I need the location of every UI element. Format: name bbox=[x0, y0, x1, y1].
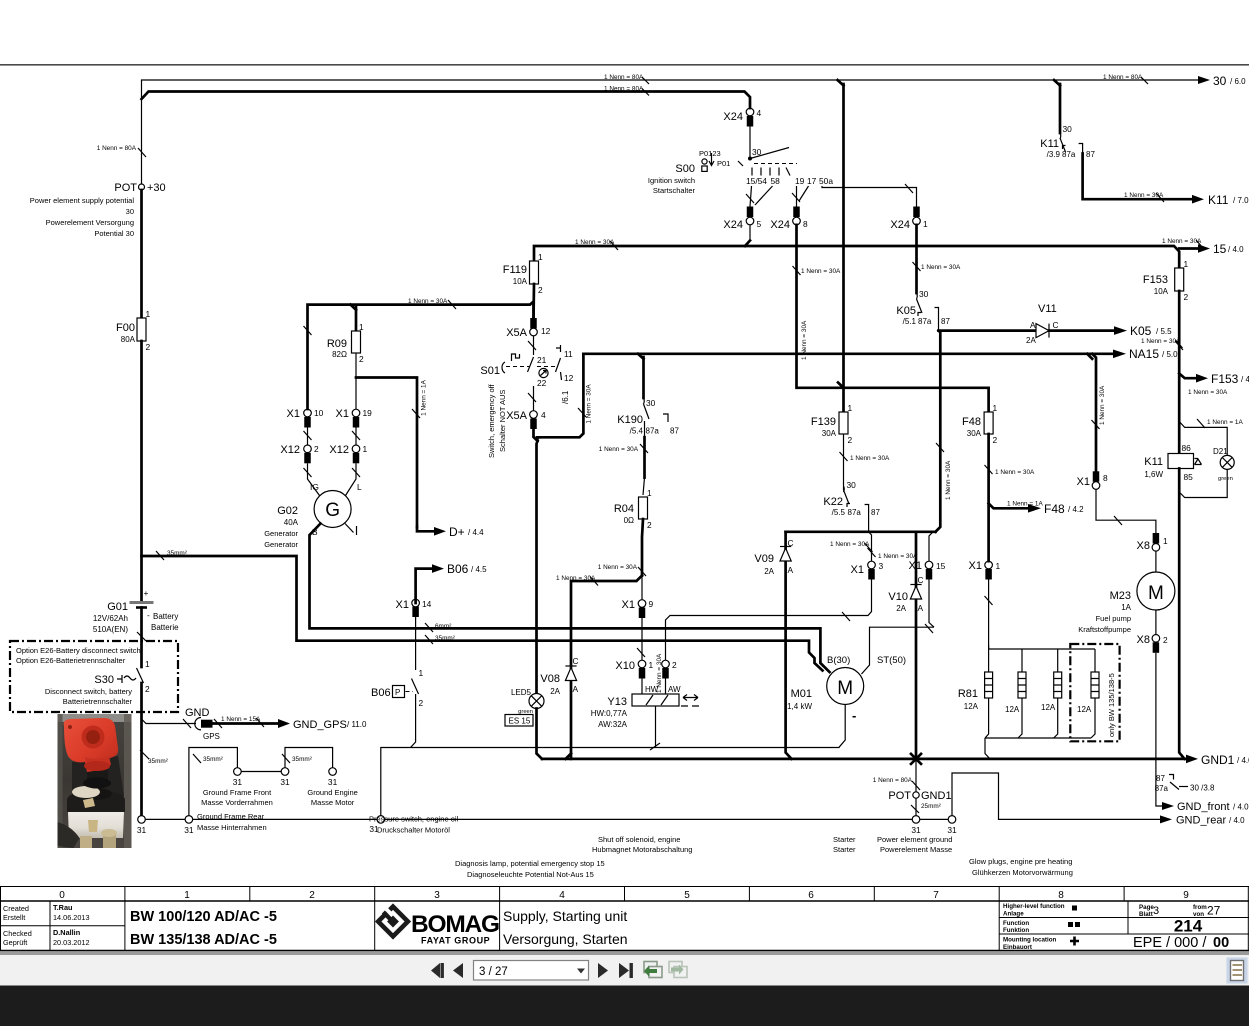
wire X1:3 to X10:2 run bbox=[666, 580, 872, 661]
svg-text:1 Nenn = 80A: 1 Nenn = 80A bbox=[873, 777, 913, 784]
wire starter node rail bbox=[786, 530, 936, 533]
junction marks GND1 bus bbox=[566, 754, 572, 759]
svg-text:5: 5 bbox=[684, 890, 690, 901]
svg-text:15: 15 bbox=[936, 561, 946, 571]
svg-text:87a: 87a bbox=[1062, 150, 1076, 159]
node 31 frame front b bbox=[281, 768, 289, 776]
wire X5A:4 junction bbox=[534, 429, 538, 441]
node K05 / 5.5 arrow bbox=[1049, 329, 1114, 332]
svg-text:1: 1 bbox=[359, 322, 364, 332]
svg-text:1A: 1A bbox=[1121, 603, 1131, 612]
svg-text:Higher-level function: Higher-level function bbox=[1003, 903, 1065, 910]
svg-text:Kraftstoffpumpe: Kraftstoffpumpe bbox=[1078, 625, 1131, 634]
node GND_front / 4.0 arrow bbox=[1162, 802, 1174, 810]
svg-text:1 Nenn = 80A: 1 Nenn = 80A bbox=[1103, 74, 1143, 81]
svg-text:Masse Vorderrahmen: Masse Vorderrahmen bbox=[201, 798, 273, 807]
svg-text:X10: X10 bbox=[615, 660, 635, 672]
svg-text:1 Nenn = 30A: 1 Nenn = 30A bbox=[995, 469, 1035, 476]
svg-text:Disconnect switch, battery: Disconnect switch, battery bbox=[45, 687, 132, 696]
svg-text:GND_front: GND_front bbox=[1177, 801, 1230, 813]
svg-text:10A: 10A bbox=[513, 277, 528, 286]
resistor R04 bbox=[639, 497, 648, 519]
svg-text:K190: K190 bbox=[617, 414, 643, 426]
relay contact K190 bbox=[617, 398, 679, 436]
wire R09 to X1:19 bbox=[355, 353, 357, 409]
node K11 / 7.0 arrow bbox=[1083, 154, 1192, 200]
svg-text:K05: K05 bbox=[896, 305, 916, 317]
svg-text:1: 1 bbox=[145, 659, 150, 669]
svg-text:87: 87 bbox=[1086, 150, 1095, 159]
svg-text:2A: 2A bbox=[764, 567, 774, 576]
pin X1:10 bbox=[304, 409, 312, 417]
svg-text:Y13: Y13 bbox=[607, 696, 627, 708]
switch S30 disconnect bbox=[45, 659, 150, 706]
svg-text:30: 30 bbox=[919, 289, 929, 299]
svg-text:31: 31 bbox=[911, 825, 921, 835]
svg-text:GND1: GND1 bbox=[921, 790, 952, 802]
svg-text:Fuel pump: Fuel pump bbox=[1096, 614, 1131, 623]
svg-text:50a: 50a bbox=[819, 176, 833, 186]
pin X1:19 bbox=[352, 409, 360, 417]
svg-text:82Ω: 82Ω bbox=[332, 350, 347, 359]
diode V09 bbox=[754, 538, 793, 576]
wire R04 to X1:9 bbox=[642, 519, 643, 576]
svg-text:F48: F48 bbox=[1044, 502, 1065, 516]
svg-text:POT: POT bbox=[888, 790, 911, 802]
wire GND1 bus bbox=[542, 758, 1186, 761]
node 31 left bbox=[138, 816, 146, 824]
svg-text:86: 86 bbox=[1182, 443, 1192, 453]
svg-text:31: 31 bbox=[184, 825, 194, 835]
wire X1:14 to B06 bbox=[415, 617, 417, 670]
svg-text:80A: 80A bbox=[121, 335, 136, 344]
svg-text:2: 2 bbox=[1184, 292, 1189, 302]
svg-text:M23: M23 bbox=[1110, 590, 1131, 602]
node 15 / 4.0 arrow bbox=[1179, 247, 1198, 250]
svg-text:-: - bbox=[147, 610, 150, 620]
node F48 / 4.2 arrow bbox=[989, 504, 1028, 509]
wire X1:19 to X12:1 bbox=[355, 428, 357, 446]
svg-text:2A: 2A bbox=[550, 687, 560, 696]
wire K05 87 down run bbox=[936, 331, 941, 532]
svg-text:30: 30 bbox=[1063, 124, 1073, 134]
svg-text:Hubmagnet Motorabschaltung: Hubmagnet Motorabschaltung bbox=[592, 845, 692, 854]
pin X1:15 bbox=[925, 561, 933, 569]
resistor R81 glow plug 3 bbox=[1041, 672, 1062, 712]
wire K22 87 drop bbox=[868, 511, 870, 532]
svg-text:Ground Frame Rear: Ground Frame Rear bbox=[197, 812, 265, 821]
svg-text:X5A: X5A bbox=[506, 327, 527, 339]
svg-text:Startschalter: Startschalter bbox=[653, 186, 696, 195]
wire D+ branch bbox=[356, 378, 417, 528]
wire GND_GPS arrow bbox=[213, 722, 279, 725]
node 31 rear ground bbox=[948, 816, 956, 824]
svg-text:IG: IG bbox=[310, 482, 319, 492]
pin X8:2 bbox=[1155, 610, 1157, 635]
wire S00 19 to X24:8 bbox=[796, 186, 798, 207]
svg-text:S00: S00 bbox=[675, 163, 695, 175]
photo white body bbox=[68, 812, 124, 838]
svg-text:Masse Hinterrahmen: Masse Hinterrahmen bbox=[197, 823, 267, 832]
wire F153 down bbox=[1178, 291, 1181, 454]
wire X1:9 to X10:1 bbox=[641, 618, 643, 660]
wire X12:1 to G02 L bbox=[346, 463, 357, 495]
svg-text:2: 2 bbox=[647, 520, 652, 530]
svg-text:A: A bbox=[573, 684, 579, 694]
generator G02 bbox=[314, 491, 351, 528]
svg-text:/3.9: /3.9 bbox=[1047, 150, 1061, 159]
svg-text:K11: K11 bbox=[1040, 138, 1059, 150]
svg-text:30: 30 bbox=[847, 480, 857, 490]
svg-text:Glühkerzen Motorvorwärmung: Glühkerzen Motorvorwärmung bbox=[972, 868, 1073, 877]
svg-text:21: 21 bbox=[537, 355, 547, 365]
node D+ / 4.4 arrow bbox=[417, 527, 434, 531]
svg-text:LED5: LED5 bbox=[511, 688, 532, 697]
wire X24:8 to F139 rail bbox=[797, 225, 989, 412]
svg-text:/6.1: /6.1 bbox=[561, 390, 570, 404]
svg-text:/5.1: /5.1 bbox=[903, 317, 917, 326]
svg-text:1 Nenn = 80A: 1 Nenn = 80A bbox=[97, 145, 137, 152]
svg-text:87: 87 bbox=[670, 427, 679, 436]
svg-text:F139: F139 bbox=[811, 416, 836, 428]
svg-text:P: P bbox=[395, 688, 400, 697]
BOMAG logo bbox=[376, 905, 499, 946]
pin X1:1 bbox=[985, 561, 993, 569]
pin X24:5 bbox=[747, 207, 754, 218]
svg-text:/ 5.5: / 5.5 bbox=[1156, 327, 1172, 336]
svg-text:V09: V09 bbox=[754, 553, 774, 565]
svg-text:1 Nenn = 30A: 1 Nenn = 30A bbox=[1099, 385, 1106, 425]
svg-text:F119: F119 bbox=[503, 264, 527, 276]
svg-text:1 Nenn = 1A: 1 Nenn = 1A bbox=[421, 379, 428, 415]
svg-text:4: 4 bbox=[559, 890, 565, 901]
wire LED5 to GND1 bus bbox=[537, 709, 543, 759]
wire G02 B output bbox=[310, 524, 830, 673]
svg-text:1 Nenn = 80A: 1 Nenn = 80A bbox=[604, 86, 644, 93]
svg-text:00: 00 bbox=[1213, 935, 1229, 951]
svg-text:FAYAT GROUP: FAYAT GROUP bbox=[421, 936, 490, 946]
ignition switch S00 bbox=[648, 147, 833, 195]
svg-text:9: 9 bbox=[1183, 890, 1189, 901]
column ruler strip bbox=[0, 887, 1249, 902]
svg-text:8: 8 bbox=[1058, 890, 1064, 901]
svg-text:12A: 12A bbox=[1041, 703, 1056, 712]
svg-text:87a: 87a bbox=[918, 317, 932, 326]
wire D21 branch bbox=[1179, 422, 1227, 456]
svg-text:10: 10 bbox=[314, 408, 324, 418]
svg-text:/5.4: /5.4 bbox=[630, 427, 644, 436]
svg-text:19: 19 bbox=[795, 176, 805, 186]
svg-text:M: M bbox=[1148, 583, 1164, 604]
svg-text:/ 7.0: / 7.0 bbox=[1233, 196, 1249, 205]
svg-text:35mm²: 35mm² bbox=[292, 756, 312, 763]
svg-text:Anlage: Anlage bbox=[1003, 911, 1024, 918]
svg-text:87a: 87a bbox=[1155, 784, 1169, 793]
svg-text:2: 2 bbox=[314, 444, 319, 454]
svg-text:A: A bbox=[918, 603, 924, 613]
svg-text:BOMAG: BOMAG bbox=[411, 911, 499, 938]
relay contact K05 bbox=[896, 293, 950, 331]
svg-text:Function: Function bbox=[1003, 920, 1029, 927]
svg-text:X12: X12 bbox=[329, 444, 349, 456]
pin X24:8 bbox=[793, 207, 800, 218]
wire S00 17 merge bbox=[799, 186, 809, 201]
svg-text:214: 214 bbox=[1174, 917, 1203, 936]
fuse F48 bbox=[984, 412, 993, 434]
svg-text:C: C bbox=[918, 575, 924, 585]
svg-text:Batterie: Batterie bbox=[151, 623, 179, 632]
svg-text:GND_rear: GND_rear bbox=[1176, 815, 1226, 827]
svg-text:+30: +30 bbox=[147, 182, 166, 194]
svg-text:2: 2 bbox=[359, 354, 364, 364]
svg-text:X1: X1 bbox=[622, 599, 635, 611]
svg-text:AW:32A: AW:32A bbox=[598, 720, 628, 729]
pdf viewer toolbar bbox=[0, 952, 1249, 1026]
wire X1:8 drop from NA15 bbox=[1092, 354, 1096, 472]
wire S30 to ground rail bbox=[140, 683, 143, 816]
svg-text:1 Nenn = 80A: 1 Nenn = 80A bbox=[604, 74, 644, 81]
svg-text:GND_GPS: GND_GPS bbox=[293, 719, 347, 731]
switch S01 emergency off bbox=[480, 336, 573, 458]
svg-text:2: 2 bbox=[145, 684, 150, 694]
wire NA15 riser bbox=[540, 354, 583, 438]
motor M01 starter bbox=[827, 668, 864, 705]
svg-text:B06: B06 bbox=[371, 687, 391, 699]
svg-text:85: 85 bbox=[1184, 472, 1194, 482]
title block bbox=[0, 901, 1249, 951]
svg-text:2A: 2A bbox=[896, 604, 906, 613]
svg-text:X1: X1 bbox=[336, 408, 349, 420]
svg-text:Geprüft: Geprüft bbox=[3, 938, 27, 947]
relay coil K11 bbox=[1144, 443, 1201, 482]
svg-text:V10: V10 bbox=[888, 591, 908, 603]
svg-text:2: 2 bbox=[146, 342, 151, 352]
svg-text:/ 4.5: / 4.5 bbox=[471, 565, 487, 574]
svg-text:17: 17 bbox=[807, 176, 817, 186]
svg-text:30A: 30A bbox=[967, 429, 982, 438]
wire R09 feed rail bbox=[308, 302, 534, 410]
svg-text:2: 2 bbox=[672, 660, 677, 670]
svg-text:6mm²: 6mm² bbox=[435, 623, 451, 630]
svg-text:12A: 12A bbox=[964, 702, 979, 711]
svg-text:1: 1 bbox=[647, 488, 652, 498]
svg-text:1 Nenn = 30A: 1 Nenn = 30A bbox=[801, 320, 808, 360]
wire X1:3 drop bbox=[869, 532, 872, 561]
contact 87a to 30/3.8 bbox=[1155, 774, 1215, 793]
svg-text:F153: F153 bbox=[1211, 372, 1239, 386]
wire F139 to K22 bbox=[843, 434, 845, 490]
photo battery disconnect switch bbox=[58, 714, 132, 848]
svg-text:1 Nenn = 30A: 1 Nenn = 30A bbox=[945, 460, 952, 500]
wire R81 top feed rail bbox=[989, 645, 1095, 649]
svg-text:1 Nenn = 30A: 1 Nenn = 30A bbox=[921, 264, 961, 271]
svg-text:30: 30 bbox=[1213, 74, 1227, 88]
svg-text:R81: R81 bbox=[958, 688, 978, 700]
fuse F153 bbox=[1175, 268, 1184, 291]
resistor R81 glow plug 1 bbox=[958, 672, 993, 711]
wire S00 58 merge bbox=[755, 186, 773, 205]
svg-text:HW:0,77A: HW:0,77A bbox=[591, 709, 628, 718]
wire S00 15/54 to X24:5 bbox=[750, 186, 752, 207]
lamp LED5 bbox=[505, 688, 544, 726]
svg-text:S01: S01 bbox=[480, 365, 500, 377]
wire F00 to battery bbox=[140, 341, 143, 600]
svg-text:C: C bbox=[573, 656, 579, 666]
svg-text:X1: X1 bbox=[851, 564, 864, 576]
svg-text:B(30): B(30) bbox=[827, 655, 850, 666]
svg-text:X24: X24 bbox=[723, 111, 743, 123]
svg-text:F00: F00 bbox=[116, 322, 135, 334]
sidebar toggle icon right bbox=[1227, 958, 1248, 984]
svg-text:/ 4.4: / 4.4 bbox=[468, 528, 484, 537]
wire GND_rear run bbox=[952, 773, 1160, 819]
svg-text:GPS: GPS bbox=[203, 732, 220, 741]
svg-text:V11: V11 bbox=[1038, 303, 1057, 315]
svg-text:1 Nenn = 15A: 1 Nenn = 15A bbox=[221, 716, 261, 723]
svg-text:only BW 135/138-5: only BW 135/138-5 bbox=[1107, 673, 1116, 737]
wire POT GND1 to 31 bbox=[915, 798, 917, 815]
svg-text:Funktion: Funktion bbox=[1003, 927, 1029, 934]
next view icon (disabled) bbox=[669, 962, 687, 978]
svg-text:87: 87 bbox=[871, 508, 880, 517]
svg-text:2A: 2A bbox=[1026, 336, 1036, 345]
svg-text:/5.5: /5.5 bbox=[832, 508, 846, 517]
pin X1:9 bbox=[638, 600, 646, 608]
svg-text:15/54: 15/54 bbox=[746, 176, 767, 186]
svg-text:12: 12 bbox=[564, 373, 574, 383]
wire B06 to ground rail bbox=[411, 694, 416, 748]
svg-text:1: 1 bbox=[848, 403, 853, 413]
fuse F119 bbox=[530, 261, 539, 284]
wire frame front link bbox=[241, 771, 281, 773]
svg-text:4: 4 bbox=[541, 410, 546, 420]
svg-text:30: 30 bbox=[126, 207, 134, 216]
svg-text:20.03.2012: 20.03.2012 bbox=[53, 938, 90, 947]
next page button bbox=[598, 963, 608, 978]
pin X1:8 bbox=[1093, 471, 1100, 482]
photo black cylinder bbox=[87, 760, 108, 784]
svg-text:1 Nenn = 30A: 1 Nenn = 30A bbox=[575, 239, 615, 246]
switch B06 pressure bbox=[371, 668, 424, 708]
svg-text:1 Nenn = 30A: 1 Nenn = 30A bbox=[850, 455, 890, 462]
svg-text:3: 3 bbox=[879, 561, 884, 571]
svg-text:S30: S30 bbox=[94, 674, 114, 686]
svg-text:X8: X8 bbox=[1137, 634, 1150, 646]
relay contact K11 top bbox=[1040, 80, 1095, 159]
svg-text:Diagnosis lamp, potential emer: Diagnosis lamp, potential emergency stop… bbox=[455, 859, 605, 868]
svg-text:35mm²: 35mm² bbox=[435, 635, 455, 642]
svg-text:0Ω: 0Ω bbox=[624, 516, 634, 525]
photo flange disc bbox=[67, 790, 125, 810]
photo housing dark bbox=[72, 756, 124, 802]
svg-text:4: 4 bbox=[757, 108, 762, 118]
wire X10 to Y13 bbox=[641, 679, 643, 695]
svg-text:8: 8 bbox=[1103, 473, 1108, 483]
svg-text:1: 1 bbox=[649, 660, 654, 670]
svg-text:BW 100/120 AD/AC -5: BW 100/120 AD/AC -5 bbox=[130, 909, 277, 925]
fuse F00 bbox=[137, 318, 146, 341]
wire X1:15 riser bbox=[929, 532, 933, 561]
svg-text:1 Nenn = 30A: 1 Nenn = 30A bbox=[830, 541, 870, 548]
svg-text:1 Nenn = 30A: 1 Nenn = 30A bbox=[599, 446, 639, 453]
svg-text:Powerelement Versorgung: Powerelement Versorgung bbox=[46, 218, 134, 227]
svg-text:58: 58 bbox=[771, 176, 781, 186]
node B06 / 4.5 arrow bbox=[416, 569, 432, 603]
svg-text:X24: X24 bbox=[890, 219, 910, 231]
wire X1:8 to X8:1 bbox=[1096, 489, 1156, 533]
svg-text:Ground Engine: Ground Engine bbox=[307, 788, 357, 797]
svg-text:2: 2 bbox=[309, 890, 315, 901]
S30 option box bbox=[10, 641, 178, 712]
svg-text:D+: D+ bbox=[449, 525, 465, 539]
svg-text:1 Nenn = 30A: 1 Nenn = 30A bbox=[878, 553, 918, 560]
svg-text:27: 27 bbox=[1207, 904, 1221, 918]
wire R09 branch bbox=[355, 307, 358, 331]
wire 30 feed bus2 bbox=[142, 92, 751, 109]
wire K05 87 to V11 bbox=[939, 329, 1036, 332]
node 31 frame front a bbox=[234, 768, 242, 776]
svg-text:30 /3.8: 30 /3.8 bbox=[1190, 784, 1215, 793]
svg-text:1 Nenn = 30A: 1 Nenn = 30A bbox=[556, 575, 596, 582]
svg-text:Blatt: Blatt bbox=[1139, 911, 1153, 918]
svg-text:Checked: Checked bbox=[3, 929, 32, 938]
wire K11 85 to GND1 bbox=[1179, 469, 1184, 759]
wire V09 branch down bbox=[786, 532, 792, 759]
pin X1:3 bbox=[868, 561, 876, 569]
svg-text:/ 4.0: / 4.0 bbox=[1229, 816, 1245, 825]
svg-text:12: 12 bbox=[541, 326, 551, 336]
diode V08 bbox=[540, 656, 578, 696]
svg-text:K22: K22 bbox=[823, 496, 843, 508]
previous view icon bbox=[644, 962, 662, 978]
svg-text:M01: M01 bbox=[791, 688, 812, 700]
svg-text:1 Nenn = 30A: 1 Nenn = 30A bbox=[586, 384, 593, 424]
wire ground frame rear rail bbox=[142, 818, 917, 820]
svg-text:P0123: P0123 bbox=[699, 149, 721, 158]
resistor R09 bbox=[352, 331, 361, 353]
svg-text:Ground Frame Front: Ground Frame Front bbox=[203, 788, 272, 797]
pin X5A:4 bbox=[530, 411, 538, 419]
svg-text:A: A bbox=[788, 565, 794, 575]
wire X24:1 to K05 bbox=[915, 225, 918, 293]
diode V11 bbox=[1026, 303, 1059, 345]
svg-text:X1: X1 bbox=[969, 560, 982, 572]
svg-text:Versorgung, Starten: Versorgung, Starten bbox=[503, 931, 628, 947]
wire G02 W stub bbox=[345, 524, 354, 533]
wire X1:15 to ST run bbox=[929, 580, 934, 628]
svg-text:K11: K11 bbox=[1144, 456, 1163, 468]
motor M23 fuel pump bbox=[1155, 551, 1157, 572]
battery G01 bbox=[93, 588, 179, 634]
svg-text:Generator: Generator bbox=[264, 540, 298, 549]
wire R81 bottom collect rail bbox=[985, 698, 989, 738]
svg-text:9: 9 bbox=[649, 599, 654, 609]
wire X8:2 to GND_front bbox=[1156, 653, 1162, 806]
svg-text:12V/62Ah: 12V/62Ah bbox=[93, 614, 128, 623]
svg-text:AW: AW bbox=[668, 685, 681, 694]
wire F119 to X5A:12 bbox=[532, 284, 535, 321]
wire X1:14 riser labels bbox=[425, 623, 433, 632]
photo cable bbox=[58, 822, 80, 848]
svg-text:Batterietrennschalter: Batterietrennschalter bbox=[63, 697, 133, 706]
wire F139 rail from 30 bus bbox=[842, 84, 845, 412]
wire POT GND1 drop bbox=[915, 759, 917, 792]
svg-text:Battery: Battery bbox=[153, 612, 178, 621]
svg-text:Erstellt: Erstellt bbox=[3, 913, 25, 922]
svg-text:D21: D21 bbox=[1213, 447, 1228, 456]
svg-text:1,4 kW: 1,4 kW bbox=[787, 702, 812, 711]
wire D21 return bbox=[1179, 469, 1227, 497]
